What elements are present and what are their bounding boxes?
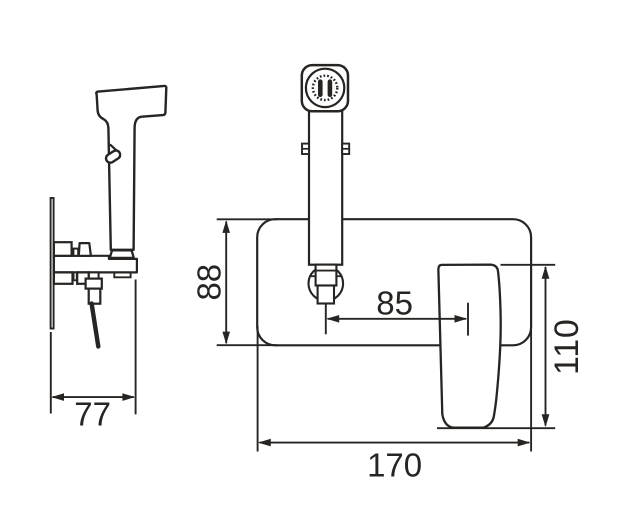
control lever (side view, angled) bbox=[92, 304, 99, 347]
lower row block left (side view) bbox=[54, 272, 73, 283]
top shelf block left (side view) bbox=[54, 242, 72, 256]
dimension 110 arrowhead bottom bbox=[542, 414, 550, 427]
dimension 170 arrowhead left bbox=[258, 439, 271, 447]
sprayer face outer circle bbox=[306, 69, 344, 107]
valve cartridge lower box bbox=[318, 286, 334, 304]
mounting ear left mid line bbox=[302, 148, 309, 150]
shallow tab right (side view) bbox=[114, 273, 130, 277]
mounting plate (front view rounded rectangle) bbox=[257, 219, 531, 345]
mounting ear right bbox=[342, 144, 349, 154]
dimension 85 line bbox=[328, 318, 467, 320]
dimension 110 line bbox=[545, 267, 547, 426]
sprayer neck (front view) bbox=[309, 108, 342, 265]
dimension 77 extension line right bbox=[135, 280, 137, 415]
wall plate (side view, thin vertical plate) bbox=[51, 198, 54, 329]
sprayer body outline (head + handle, side view) bbox=[96, 86, 166, 250]
dimension 110 arrowhead top bbox=[542, 266, 550, 279]
dimension 85 center tick right (handle centre line) bbox=[467, 303, 469, 336]
dimension 85 arrowhead left bbox=[327, 315, 340, 323]
dimension 110 extension line bottom bbox=[437, 427, 555, 429]
top shelf small step block bbox=[73, 249, 78, 256]
mounting ear left bbox=[302, 144, 309, 154]
valve chord line left bbox=[309, 275, 315, 277]
svg-text:88: 88 bbox=[191, 264, 228, 301]
valve chord line right bbox=[336, 275, 342, 277]
dimension 170 extension line right bbox=[530, 326, 532, 452]
valve stem (side view) bbox=[89, 272, 99, 278]
dimension 85 center tick left (valve centre line) bbox=[325, 304, 327, 335]
sprayer face dotted ring bbox=[313, 76, 337, 100]
dimension 170 line bbox=[260, 442, 530, 444]
sprayer face bar right bbox=[328, 79, 333, 97]
lower row small tab bbox=[74, 272, 77, 280]
mounting ear right mid line bbox=[342, 148, 349, 150]
valve cartridge upper box bbox=[316, 265, 337, 286]
dimension 170 extension line left bbox=[257, 326, 259, 452]
dimension 88 arrowhead bottom bbox=[222, 332, 230, 345]
sprayer head (front view rounded square) bbox=[302, 65, 348, 111]
dimension 77 arrowhead left bbox=[51, 393, 64, 401]
dimension 77 line bbox=[53, 396, 134, 398]
sprayer face bar left bbox=[318, 79, 323, 97]
svg-text:110: 110 bbox=[548, 318, 586, 375]
dimension 85 arrowhead right bbox=[455, 315, 468, 323]
dimension 77 extension line left bbox=[50, 332, 52, 414]
valve upper block (side view) bbox=[86, 279, 102, 289]
handle socket trapezoid (side view) bbox=[110, 250, 134, 258]
dimension 88 arrowhead top bbox=[222, 220, 230, 233]
dimension 88 line bbox=[225, 222, 227, 344]
svg-text:170: 170 bbox=[367, 447, 422, 484]
dimension 77 arrowhead right bbox=[122, 393, 135, 401]
valve cartridge circle (front view) bbox=[309, 266, 344, 301]
nozzle clip capsule (rotated stadium) bbox=[104, 149, 121, 164]
valve lower block (side view) bbox=[89, 289, 101, 304]
handle (front view lever) bbox=[438, 265, 500, 428]
lower row block center bbox=[77, 272, 89, 283]
dimension 88 extension line top bbox=[217, 218, 278, 220]
dimension 170 arrowhead right bbox=[518, 439, 531, 447]
mixer body block (side view main body) bbox=[54, 256, 137, 273]
svg-text:85: 85 bbox=[376, 285, 413, 322]
dimension 110 extension line top bbox=[501, 264, 556, 266]
svg-text:77: 77 bbox=[74, 396, 111, 433]
top shelf tapered block bbox=[79, 243, 91, 256]
nozzle clip beak (side view trigger hook) bbox=[110, 144, 117, 154]
valve cartridge upper box inner line bbox=[316, 270, 337, 272]
dimension 88 extension line bottom bbox=[217, 344, 278, 346]
